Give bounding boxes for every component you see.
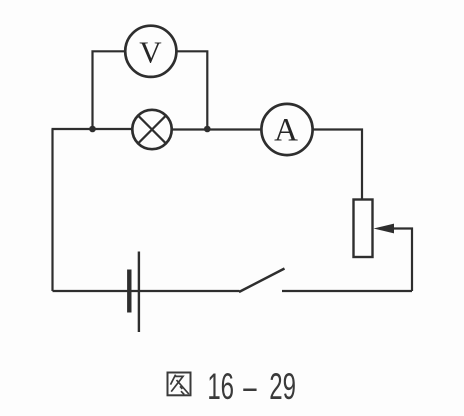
wire voltmeter branch left bbox=[93, 51, 126, 130]
caption text 16 - 29 bbox=[207, 366, 296, 408]
wire rheostat wiper lead bbox=[393, 229, 412, 292]
svg-text:A: A bbox=[274, 113, 298, 149]
lamp bbox=[132, 110, 171, 149]
voltmeter V bbox=[125, 26, 176, 77]
battery long plate (positive) bbox=[138, 252, 140, 333]
wire battery to left bbox=[53, 290, 130, 292]
svg-text:–: – bbox=[243, 366, 257, 408]
battery bbox=[129, 252, 139, 333]
rheostat R bbox=[354, 200, 373, 258]
svg-text:29: 29 bbox=[269, 366, 296, 408]
rheostat wiper arrowhead bbox=[374, 224, 395, 234]
wire bottom right bbox=[282, 290, 412, 292]
wire main horizontal left segment bbox=[52, 128, 133, 130]
wire bottom left bbox=[131, 290, 240, 292]
svg-text:16: 16 bbox=[207, 366, 234, 408]
switch S blade bbox=[239, 269, 285, 293]
node junction left bbox=[89, 126, 96, 133]
node junction right bbox=[204, 126, 211, 133]
wire voltmeter branch right bbox=[176, 51, 207, 130]
svg-text:V: V bbox=[139, 35, 162, 70]
wire lamp to ammeter bbox=[172, 128, 262, 130]
wire ammeter to rheostat bbox=[313, 130, 362, 200]
ammeter A bbox=[261, 104, 312, 155]
wire left vertical bbox=[51, 129, 53, 291]
battery short plate (negative) bbox=[127, 270, 131, 313]
caption character 图 bbox=[168, 373, 191, 396]
